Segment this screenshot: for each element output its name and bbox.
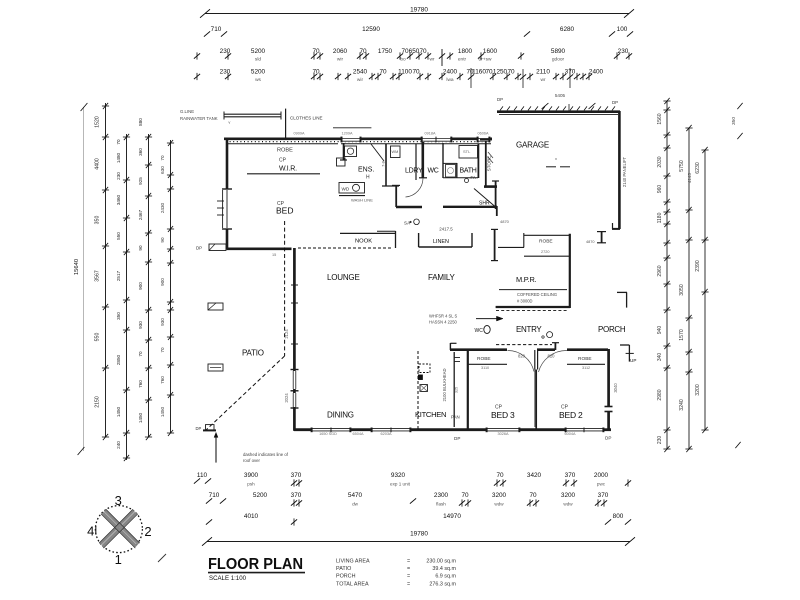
legend: area schedule <box>336 559 457 588</box>
svg-text:DINING: DINING <box>327 411 354 420</box>
svg-text:5750: 5750 <box>679 160 685 172</box>
dimension: left chain line 4 <box>138 118 152 440</box>
svg-text:3112: 3112 <box>582 366 590 370</box>
svg-text:DP: DP <box>196 246 202 251</box>
mark: kitchen bench ticks <box>454 358 460 362</box>
svg-text:5470: 5470 <box>348 492 363 499</box>
wall: store-east / garage west lower wall <box>492 181 499 209</box>
fixture: ensuite vanity WD box with basin circle <box>339 183 365 194</box>
dimension: overall bottom 19780 line <box>202 531 635 546</box>
svg-text:1450: 1450 <box>116 406 121 417</box>
window: bed2 south window <box>565 428 604 433</box>
svg-text:wdw: wdw <box>494 502 504 507</box>
fixture: shower diagonal door <box>474 189 495 207</box>
svg-text:350: 350 <box>116 312 121 320</box>
svg-text:2300: 2300 <box>434 492 449 499</box>
svg-text:roof over: roof over <box>243 458 261 463</box>
dimension: left overall 15640 line <box>74 103 87 455</box>
svg-text:230: 230 <box>116 172 121 180</box>
svg-text:360: 360 <box>138 148 143 156</box>
wall: wc east wall <box>443 163 457 178</box>
svg-text:x: x <box>555 156 557 161</box>
svg-text:14970: 14970 <box>443 513 461 520</box>
wall: pantry west wall <box>453 352 455 427</box>
svg-text:1650 SGD: 1650 SGD <box>319 432 337 436</box>
svg-text:LINEN: LINEN <box>433 239 449 245</box>
svg-text:900: 900 <box>160 278 165 286</box>
svg-text:GARAGE: GARAGE <box>516 141 549 150</box>
svg-text:PORCH: PORCH <box>336 574 356 580</box>
feature: clothes line wire <box>333 127 371 129</box>
wall: garage-porch stub wall <box>586 231 606 244</box>
svg-text:100: 100 <box>617 26 628 33</box>
dimension: right chain line 2 <box>679 125 693 452</box>
svg-text:900: 900 <box>138 282 143 290</box>
fixture: bath tub <box>459 146 478 159</box>
svg-text:2980: 2980 <box>657 389 663 400</box>
svg-text:5200: 5200 <box>251 48 266 55</box>
window: lounge west window 1 <box>293 371 296 389</box>
svg-text:dashed indicates line of: dashed indicates line of <box>243 452 289 457</box>
svg-text:bo: bo <box>400 57 406 63</box>
svg-text:WC: WC <box>428 168 439 175</box>
dimension row: top fourth chain internal dims <box>194 68 604 88</box>
dimension: right chain line 3 <box>695 147 709 433</box>
svg-text:NOOK: NOOK <box>355 239 372 245</box>
svg-text:PORCH: PORCH <box>598 325 626 334</box>
window: family sliding door 2 <box>371 428 411 433</box>
dimension: right eave marks <box>731 103 743 448</box>
svg-text:70: 70 <box>461 492 469 499</box>
wall: south exterior wall <box>294 428 611 431</box>
svg-text:3200: 3200 <box>561 492 576 499</box>
wall: nib above bed2 door <box>552 343 559 351</box>
door arc: hall to wc/bath <box>406 179 424 198</box>
svg-text:0918A: 0918A <box>425 132 436 136</box>
fixture: laundry trough box <box>391 144 417 180</box>
svg-text:DP: DP <box>612 100 618 105</box>
feature: clothes line post <box>285 109 287 139</box>
dimension: overall top 19780 line <box>200 7 634 18</box>
fixture: bed3 robe front line <box>468 356 507 370</box>
svg-text:6504A: 6504A <box>353 432 364 436</box>
svg-text:0909A: 0909A <box>294 132 305 136</box>
label: DP at north west corner with pit <box>196 244 226 251</box>
wall: wc west wall <box>442 143 444 178</box>
svg-text:370: 370 <box>565 472 576 479</box>
svg-text:ENTRY: ENTRY <box>516 325 542 334</box>
corner: patio south-west corner and DP <box>196 425 217 431</box>
svg-text:UP: UP <box>630 358 636 363</box>
svg-text:KITCHEN: KITCHEN <box>415 410 446 419</box>
fixture: wc toilet <box>446 165 456 178</box>
svg-text:2000: 2000 <box>594 472 609 479</box>
svg-text:WM: WM <box>392 150 399 154</box>
svg-text:3460: 3460 <box>116 194 121 205</box>
svg-text:W.I.R.: W.I.R. <box>279 166 297 173</box>
svg-text:wr: wr <box>429 57 434 63</box>
svg-text:350: 350 <box>95 216 101 225</box>
svg-text:entr: entr <box>458 57 467 63</box>
label: W.I.R. <box>279 158 297 173</box>
svg-text:230: 230 <box>657 436 663 445</box>
svg-text:230: 230 <box>220 48 231 55</box>
dashed: bed1 roof line vertical <box>284 221 286 356</box>
svg-text:ROBE: ROBE <box>539 239 553 245</box>
svg-text:760: 760 <box>138 380 143 388</box>
svg-text:930: 930 <box>160 318 165 326</box>
svg-text:370: 370 <box>291 472 302 479</box>
svg-text:ENS.: ENS. <box>358 167 374 174</box>
note: hws arrow and text <box>429 314 503 325</box>
svg-text:pwc: pwc <box>597 482 606 487</box>
dimension: right chain line 1 <box>657 98 671 452</box>
fixture: patio seat symbol <box>208 364 223 371</box>
wall: bed wing north wall <box>450 343 608 350</box>
svg-text:DP: DP <box>605 436 611 441</box>
fixture: patio bbq symbol <box>208 303 223 310</box>
window: wc/ldry north window <box>421 137 452 143</box>
arrow: sewer vent arrow below patio corner <box>214 432 218 462</box>
svg-text:70: 70 <box>160 155 165 161</box>
svg-text:5405: 5405 <box>555 93 566 98</box>
svg-text:710: 710 <box>209 492 220 499</box>
svg-text:G.LINE: G.LINE <box>180 109 194 114</box>
wall: ens south return <box>339 144 400 207</box>
svg-text:=: = <box>407 566 410 572</box>
wall: porch south-east corner bracket with UP <box>620 345 636 363</box>
svg-text:CP: CP <box>279 158 287 164</box>
dimension: left chain line 2 <box>95 103 110 440</box>
svg-text:exp 1 unit: exp 1 unit <box>390 482 411 487</box>
svg-text:276.3 sq.m: 276.3 sq.m <box>429 582 456 588</box>
svg-text:3200: 3200 <box>492 492 507 499</box>
svg-text:2430: 2430 <box>160 202 165 213</box>
svg-text:M.P.R.: M.P.R. <box>516 275 537 284</box>
svg-text:HASSN 4 2250: HASSN 4 2250 <box>429 320 457 325</box>
svg-text:70: 70 <box>419 48 427 55</box>
svg-text:940: 940 <box>657 326 663 335</box>
svg-text:2030: 2030 <box>657 156 663 167</box>
svg-text:LIVING AREA: LIVING AREA <box>336 559 370 565</box>
fixture: entry light circle <box>542 332 553 339</box>
dimension row: bottom first chain <box>194 472 631 487</box>
svg-text:820: 820 <box>518 354 526 359</box>
wall: mpr south wall <box>496 306 570 308</box>
svg-text:=: = <box>407 574 410 580</box>
label: ENS. <box>358 167 374 181</box>
wall: wir-ens divider <box>340 143 347 160</box>
svg-text:1180: 1180 <box>657 212 663 223</box>
svg-text:wdw: wdw <box>563 502 573 507</box>
svg-text:DP: DP <box>196 426 202 431</box>
svg-text:4870: 4870 <box>586 240 594 244</box>
svg-text:370: 370 <box>598 492 609 499</box>
compass: north point diagram <box>87 493 151 567</box>
svg-text:70: 70 <box>496 472 504 479</box>
wall: hall south wall west part <box>396 206 422 208</box>
svg-text:FLOOR PLAN: FLOOR PLAN <box>208 556 303 573</box>
svg-text:BED: BED <box>276 206 293 216</box>
fixture: wir wr box <box>337 158 346 166</box>
feature: rainwater tank lines <box>224 112 281 126</box>
fixture: bath floor waste FA <box>465 175 476 183</box>
svg-text:WC: WC <box>475 328 484 334</box>
svg-text:FAMILY: FAMILY <box>428 273 456 282</box>
svg-text:350: 350 <box>731 117 737 125</box>
svg-text:760: 760 <box>160 376 165 384</box>
svg-text:2417.5: 2417.5 <box>439 227 453 232</box>
svg-text:9320: 9320 <box>391 472 406 479</box>
svg-text:2100 BULKHEAD: 2100 BULKHEAD <box>442 368 447 401</box>
svg-text:4400: 4400 <box>95 158 101 170</box>
svg-text:19780: 19780 <box>410 7 428 14</box>
svg-text:DP: DP <box>454 436 460 441</box>
dimension row: top third chain room dims <box>194 48 632 66</box>
svg-text:H: H <box>366 175 370 181</box>
svg-text:925: 925 <box>138 177 143 185</box>
svg-text:90: 90 <box>160 237 165 243</box>
svg-text:6004A: 6004A <box>565 432 576 436</box>
svg-text:2390: 2390 <box>695 260 701 272</box>
svg-text:240: 240 <box>116 441 121 449</box>
svg-text:1450: 1450 <box>160 406 165 417</box>
wall: mpr robe niche <box>498 233 524 247</box>
svg-text:PATIO: PATIO <box>242 349 264 358</box>
svg-text:3240: 3240 <box>679 399 685 411</box>
svg-text:110: 110 <box>197 472 208 479</box>
svg-text:6.9 sq.m: 6.9 sq.m <box>435 574 456 580</box>
svg-text:230.00 sq.m: 230.00 sq.m <box>426 559 456 565</box>
svg-text:LOUNGE: LOUNGE <box>327 273 360 282</box>
window: dining west window 2 <box>293 393 296 407</box>
svg-text:COFFERED CEILING: COFFERED CEILING <box>517 292 557 297</box>
svg-text:1560: 1560 <box>657 113 663 124</box>
svg-text:BATH: BATH <box>460 168 477 175</box>
svg-text:3050: 3050 <box>679 284 685 296</box>
svg-text:sld: sld <box>255 57 261 63</box>
svg-text:3110: 3110 <box>481 366 489 370</box>
svg-text:2: 2 <box>144 524 151 539</box>
svg-text:3040: 3040 <box>613 383 618 393</box>
svg-text:3: 3 <box>115 493 122 508</box>
wall: bath east wall <box>477 144 479 178</box>
svg-text:90: 90 <box>138 245 143 251</box>
fixture: wir robe rail <box>247 173 320 175</box>
svg-text:ROBE: ROBE <box>578 356 592 362</box>
svg-text:dw: dw <box>352 502 359 507</box>
svg-text:STL: STL <box>463 149 471 154</box>
svg-text:0606A: 0606A <box>478 132 489 136</box>
svg-text:TOTAL AREA: TOTAL AREA <box>336 582 369 588</box>
dimension row: bottom third chain <box>206 513 631 526</box>
fixture: ensuite door diagonal <box>371 144 384 161</box>
svg-text:SCALE 1:100: SCALE 1:100 <box>209 576 247 582</box>
svg-text:1160: 1160 <box>472 69 486 76</box>
window: dining sliding door 1 <box>311 428 351 433</box>
fixture: smoke alarm SA <box>404 219 419 226</box>
svg-text:BED 3: BED 3 <box>491 410 515 420</box>
wall: garage west wall upper <box>480 140 492 187</box>
svg-text:wir: wir <box>337 57 344 63</box>
svg-text:70: 70 <box>116 139 121 145</box>
svg-text:2060: 2060 <box>333 48 348 55</box>
svg-text:4010: 4010 <box>244 513 259 520</box>
wall: garage north wall <box>497 106 620 114</box>
svg-text:70: 70 <box>507 69 515 76</box>
wall: porch north-east corner bracket <box>617 292 627 307</box>
mark: stray tick left of title <box>158 554 166 562</box>
svg-text:2110: 2110 <box>536 69 550 76</box>
window: ensuite north window <box>341 137 361 143</box>
wall: bed2 east exterior wall <box>605 349 613 431</box>
svg-text:CLOTHES LINE: CLOTHES LINE <box>290 116 323 121</box>
svg-text:2024: 2024 <box>284 393 289 403</box>
svg-text:ws: ws <box>255 78 261 83</box>
label: garage slab dim 5405 <box>542 93 596 112</box>
note: dashed roof note text <box>243 452 289 463</box>
fixture: oven/pantry box <box>420 385 428 392</box>
wall: nook north wall <box>340 231 396 248</box>
svg-text:PATIO: PATIO <box>336 566 351 572</box>
svg-text:gdoor: gdoor <box>552 57 565 63</box>
svg-text:3900: 3900 <box>244 472 259 479</box>
svg-text:19780: 19780 <box>410 531 428 538</box>
svg-text:7-8: 7-8 <box>381 160 386 167</box>
wall: bed3/bed2 divider <box>535 370 537 431</box>
dimension: left chain line 5 window setouts <box>160 140 174 436</box>
svg-text:70: 70 <box>529 492 537 499</box>
title: FLOOR PLAN <box>208 556 305 582</box>
svg-text:WHFSR 4 SL S: WHFSR 4 SL S <box>429 314 458 319</box>
svg-text:5200: 5200 <box>253 492 268 499</box>
svg-text:DP: DP <box>497 97 503 102</box>
svg-text:ROBE: ROBE <box>277 148 293 154</box>
svg-text:flash: flash <box>436 502 446 507</box>
fixture: bed2 robe front line <box>567 356 605 370</box>
svg-text:800: 800 <box>613 513 624 520</box>
svg-text:960: 960 <box>657 185 663 194</box>
svg-text:=: = <box>407 559 410 565</box>
svg-text:6203A: 6203A <box>381 432 392 436</box>
svg-text:4145: 4145 <box>687 172 692 183</box>
svg-text:70: 70 <box>160 347 165 353</box>
window: bed1 west window <box>217 190 227 228</box>
label: BED 2 <box>559 405 583 421</box>
svg-text:lwa: lwa <box>446 77 454 83</box>
svg-text:2540: 2540 <box>353 69 368 76</box>
window: bath north window <box>477 137 490 143</box>
dimension row: bottom second chain <box>206 492 609 507</box>
svg-text:2960: 2960 <box>657 265 663 276</box>
svg-text:15: 15 <box>272 253 276 257</box>
svg-text:2140 PANELIFT: 2140 PANELIFT <box>622 156 627 187</box>
svg-text:880: 880 <box>138 118 143 126</box>
wall: kitchen west appliance dashed line <box>417 351 419 430</box>
svg-text:70: 70 <box>485 69 493 76</box>
label: BED 3 <box>491 405 515 421</box>
wall: ldry east thick wall <box>419 142 427 178</box>
svg-text:1209A: 1209A <box>342 132 353 136</box>
svg-text:STORE: STORE <box>487 156 492 172</box>
fixture: powder wc <box>475 326 491 335</box>
mark: garage floor level dashes <box>546 156 570 167</box>
svg-text:4870: 4870 <box>500 219 510 224</box>
window: bed3 south window <box>486 428 520 433</box>
wall: garage east wall <box>612 111 620 229</box>
dashed: nook-family opening line <box>298 247 392 249</box>
svg-text:2517: 2517 <box>116 270 121 281</box>
svg-text:=: = <box>407 582 410 588</box>
svg-text:1: 1 <box>115 552 122 567</box>
svg-text:6230: 6230 <box>695 162 701 174</box>
wall: lounge-dining west exterior wall <box>291 248 299 431</box>
fixture: linen cupboard <box>419 233 472 247</box>
svg-text:15640: 15640 <box>74 259 80 275</box>
svg-text:12590: 12590 <box>362 26 380 33</box>
svg-text:1480: 1480 <box>116 152 121 163</box>
svg-text:4: 4 <box>87 524 94 539</box>
svg-text:370: 370 <box>291 492 302 499</box>
svg-text:1750: 1750 <box>378 48 393 55</box>
svg-text:1450: 1450 <box>138 412 143 423</box>
fixture: mpr robe <box>524 235 570 256</box>
svg-text:70: 70 <box>138 351 143 357</box>
wall: bed1/patio step wall <box>227 248 292 251</box>
svg-text:psh: psh <box>247 482 255 487</box>
wall: bath south small wall <box>443 177 478 179</box>
svg-text:930: 930 <box>138 321 143 329</box>
fixture: ensuite shower box <box>345 146 357 157</box>
dashed: entry threshold line <box>496 344 552 346</box>
svg-text:6280: 6280 <box>560 26 575 33</box>
svg-text:RAINWATER TANK: RAINWATER TANK <box>180 116 218 121</box>
svg-text:39.4 sq.m: 39.4 sq.m <box>432 566 456 572</box>
svg-text:BED 2: BED 2 <box>559 410 583 420</box>
fixture: fridge space <box>419 364 430 373</box>
label: window spec texts above north wall <box>294 132 489 136</box>
svg-text:3200: 3200 <box>695 384 701 396</box>
svg-text:wir: wir <box>357 77 364 83</box>
svg-text:1570: 1570 <box>679 329 685 341</box>
dashed: patio roof diagonal <box>206 356 285 431</box>
svg-text:70: 70 <box>412 69 420 76</box>
door: entry double doors to hall <box>508 350 568 372</box>
label: BED 1 <box>276 201 293 216</box>
wall: north exterior wall of house <box>224 139 492 144</box>
svg-text:550: 550 <box>116 232 121 240</box>
svg-text:325: 325 <box>455 387 459 393</box>
svg-text:5200: 5200 <box>251 69 266 76</box>
svg-text:wr: wr <box>540 77 545 83</box>
svg-text:710: 710 <box>211 26 222 33</box>
svg-text:230: 230 <box>220 69 231 76</box>
svg-text:# 3000D: # 3000D <box>517 299 533 304</box>
label: gline rainwater tank text <box>180 109 218 121</box>
svg-text:2400: 2400 <box>443 69 458 76</box>
wall: west exterior wall <box>222 138 232 250</box>
svg-text:1100: 1100 <box>398 69 412 76</box>
wall: store south thick wall <box>484 185 497 188</box>
dimension row: top second chain 710/12590/6280/100 <box>204 26 633 37</box>
svg-text:5890: 5890 <box>551 48 566 55</box>
svg-text:WASH LINE: WASH LINE <box>351 198 373 203</box>
svg-text:1600: 1600 <box>483 48 498 55</box>
label: south window specs <box>319 432 576 436</box>
dimension: left chain line 3 <box>116 134 130 461</box>
mark: pier hatch at garage wall joint <box>488 152 493 163</box>
wall: bath/shr south thick wall <box>443 206 497 216</box>
